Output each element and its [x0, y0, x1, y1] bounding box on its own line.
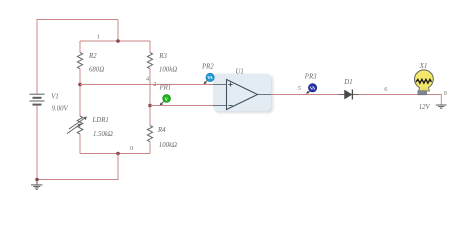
svg-text:R2: R2	[88, 53, 97, 60]
op-amp U1 highlight shadow	[215, 76, 273, 114]
probe PR3	[307, 91, 310, 93]
wire right branch lower	[149, 142, 151, 154]
svg-text:PR2: PR2	[201, 64, 214, 71]
wire left branch upper	[79, 41, 81, 53]
probe PR1	[161, 102, 164, 105]
resistor R4	[147, 126, 152, 142]
node 2 junction dot	[78, 83, 82, 87]
diode D1	[345, 90, 353, 99]
wire battery top to corner	[37, 20, 118, 95]
wire bridge bottom rail	[80, 153, 150, 155]
svg-text:U1: U1	[236, 69, 244, 76]
junction dot ground	[35, 178, 39, 182]
junction dot bottom	[116, 152, 120, 156]
svg-text:V1: V1	[51, 93, 59, 100]
wire right branch upper	[149, 41, 151, 53]
ground right	[436, 104, 447, 106]
svg-text:D1: D1	[343, 79, 352, 86]
op-amp U1 highlight box	[213, 74, 271, 112]
wire node2 to opamp plus	[80, 84, 213, 86]
svg-text:PR3: PR3	[304, 73, 317, 80]
op-amp pin out	[258, 94, 272, 96]
svg-text:4: 4	[146, 75, 150, 82]
svg-text:0: 0	[444, 90, 447, 97]
svg-text:5: 5	[298, 85, 301, 92]
svg-text:X1: X1	[419, 63, 428, 70]
svg-text:LDR1: LDR1	[92, 117, 109, 124]
junction dot top	[116, 39, 120, 43]
wire left branch lower	[79, 134, 81, 154]
LDR1 photoresistor	[77, 116, 83, 134]
svg-text:100kΩ: 100kΩ	[159, 142, 177, 149]
svg-text:1.50kΩ: 1.50kΩ	[93, 131, 113, 138]
svg-text:6: 6	[384, 86, 387, 93]
svg-text:2: 2	[153, 81, 156, 88]
resistor R2	[77, 53, 82, 69]
wire bridge top rail	[80, 40, 150, 42]
svg-text:100kΩ: 100kΩ	[159, 66, 177, 73]
probe PR2	[205, 80, 208, 83]
svg-text:12V: 12V	[419, 104, 431, 111]
wire opamp out to diode	[271, 94, 339, 96]
svg-text:R4: R4	[157, 127, 166, 134]
wire bottom return	[37, 105, 118, 180]
svg-text:680Ω: 680Ω	[89, 66, 104, 73]
wire node4 to opamp minus	[150, 105, 213, 107]
wire left branch middle	[79, 69, 81, 116]
wire right branch middle	[149, 69, 151, 126]
svg-text:9.00V: 9.00V	[52, 105, 69, 112]
resistor R3	[147, 53, 152, 69]
op-amp U1 triangle	[227, 80, 258, 110]
wire corner down to bridge top	[117, 20, 119, 42]
wire diode to lamp	[359, 95, 442, 105]
op-amp pin minus	[213, 105, 227, 107]
diode D1 leads	[339, 94, 359, 96]
node 4 junction dot	[148, 104, 152, 108]
svg-text:1: 1	[97, 33, 100, 40]
svg-text:0: 0	[130, 145, 133, 152]
ground left	[36, 180, 38, 185]
svg-text:R3: R3	[158, 53, 167, 60]
svg-text:V: V	[165, 97, 169, 103]
svg-text:PR1: PR1	[159, 85, 172, 92]
op-amp pin plus	[213, 84, 227, 86]
battery V1	[30, 93, 45, 95]
